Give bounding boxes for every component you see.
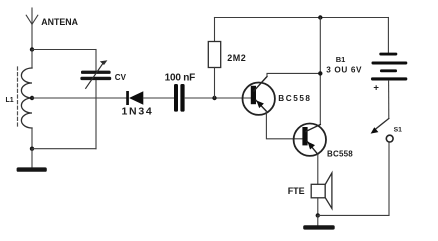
wire top supply rail <box>215 17 389 19</box>
svg-text:1N34: 1N34 <box>122 106 154 118</box>
switch S1 <box>371 119 394 143</box>
inductor L1 coil <box>21 68 32 128</box>
svg-text:+: + <box>373 83 379 94</box>
wire resistor top lead <box>214 18 216 42</box>
wire junction to CV top <box>32 49 96 51</box>
wire junction down to coil <box>31 50 33 69</box>
svg-text:FTE: FTE <box>288 186 305 196</box>
svg-text:B1: B1 <box>336 55 346 64</box>
wire collector bus down <box>319 18 321 125</box>
svg-text:2M2: 2M2 <box>227 53 246 63</box>
svg-text:ANTENA: ANTENA <box>41 17 78 27</box>
speaker FTE <box>311 173 332 209</box>
wire right riser <box>388 142 390 215</box>
svg-text:L1: L1 <box>6 97 14 104</box>
svg-text:CV: CV <box>115 73 127 82</box>
wire CV top lead <box>95 50 97 71</box>
wire diode to C1 <box>143 97 174 99</box>
ground bottom <box>303 225 335 229</box>
node coil tap junction <box>30 96 34 100</box>
wire CV bottom lead <box>95 80 97 149</box>
capacitor CV plates <box>80 71 111 81</box>
wire speaker to bottom node <box>317 198 319 216</box>
battery B1 <box>371 18 407 119</box>
wire bottom junction to CV bottom <box>32 148 96 150</box>
transistor Q2 BC558 <box>294 124 326 156</box>
wire C1 to base node <box>185 97 251 99</box>
node collector bus junction <box>318 71 322 75</box>
wire resistor bottom lead <box>214 68 216 99</box>
wire tap to diode <box>32 97 126 99</box>
wire Q1 collector to bus <box>267 73 320 76</box>
L1 core dashed line <box>17 67 19 128</box>
node top rail junction <box>318 15 322 19</box>
wire to bottom ground <box>317 215 319 225</box>
svg-text:100 nF: 100 nF <box>165 73 196 84</box>
diode 1N34 <box>126 91 143 105</box>
svg-text:BC558: BC558 <box>327 150 353 159</box>
resistor R1 2M2 <box>208 42 220 68</box>
wire to ground <box>31 149 33 168</box>
CV trimmer arrow <box>86 60 108 88</box>
node junction top of tank <box>30 47 34 51</box>
ground <box>17 167 47 171</box>
svg-text:3 OU 6V: 3 OU 6V <box>326 65 362 74</box>
svg-text:S1: S1 <box>394 126 403 133</box>
wire coil bottom <box>31 128 33 149</box>
svg-text:BC558: BC558 <box>278 94 311 103</box>
antenna symbol <box>26 8 38 50</box>
wire Q2 emitter down to speaker <box>317 154 319 184</box>
node bottom junction <box>30 147 34 151</box>
transistor Q1 BC558 <box>243 77 275 115</box>
node bottom junction <box>316 213 320 217</box>
node base junction <box>212 96 216 100</box>
wire bottom rail <box>318 214 389 216</box>
capacitor 100nF plates <box>174 84 185 112</box>
wire Q1 emitter to Q2 base <box>266 111 302 139</box>
